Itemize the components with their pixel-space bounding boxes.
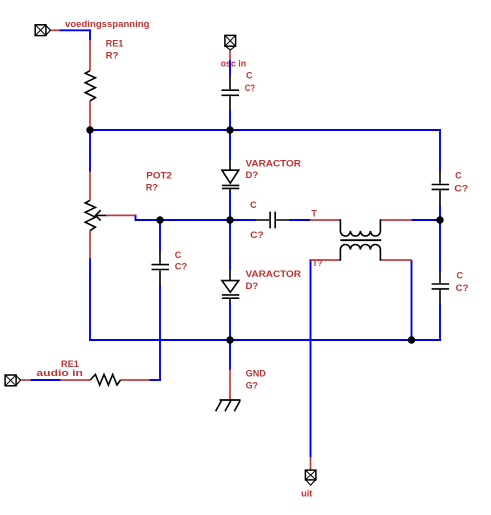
svg-text:D?: D? xyxy=(246,170,259,180)
svg-text:voedingsspanning: voedingsspanning xyxy=(65,19,150,29)
varactor D2 plates xyxy=(222,295,239,298)
ground symbol bar xyxy=(220,399,241,401)
wire osc cap to bus xyxy=(229,110,231,131)
wire bus to varactor1 xyxy=(229,130,231,160)
wire mid junction to cap xyxy=(159,220,161,251)
svg-text:VARACTOR: VARACTOR xyxy=(246,158,302,168)
capacitor C (series mid) plates xyxy=(270,212,275,229)
wire top bus xyxy=(90,129,441,131)
wire mid left xyxy=(135,219,230,221)
wire left rail upper xyxy=(89,130,91,172)
svg-text:osc in: osc in xyxy=(221,59,246,69)
svg-text:C?: C? xyxy=(175,261,187,271)
varactor D1 plates xyxy=(222,185,239,188)
varactor D2 stub xyxy=(229,270,231,281)
varactor D2 triangle xyxy=(222,281,239,293)
resistor RE1 (horizontal, audio) xyxy=(90,375,120,386)
junction at supply/bus xyxy=(86,126,93,133)
pin pot wiper xyxy=(106,214,136,216)
junction gnd bus xyxy=(226,336,233,343)
capacitor C (osc) stubs xyxy=(229,76,231,110)
potentiometer wiper arrow xyxy=(96,210,107,220)
wire varactor2 to bottom bus xyxy=(229,302,231,340)
svg-text:C: C xyxy=(246,71,253,81)
wire junction to right cap2 xyxy=(439,220,441,271)
svg-text:C: C xyxy=(250,200,257,210)
junction varactor mid xyxy=(226,216,233,223)
pin pot bottom xyxy=(89,231,91,259)
pin audio resistor left xyxy=(60,379,90,381)
svg-text:R?: R? xyxy=(106,51,119,61)
transformer T core xyxy=(340,239,381,241)
pin audio resistor right xyxy=(121,379,150,381)
svg-text:GND: GND xyxy=(246,368,267,378)
wire osc stub xyxy=(229,60,231,76)
svg-text:RE1: RE1 xyxy=(106,38,124,48)
varactor D1 triangle xyxy=(222,170,239,183)
wire top-left vertical xyxy=(89,29,91,40)
transformer T secondary winding xyxy=(340,245,380,261)
varactor D1 lower stub xyxy=(229,188,231,191)
svg-text:audio in: audio in xyxy=(36,368,83,378)
svg-text:C: C xyxy=(455,171,462,181)
wire right cap1 to junction xyxy=(439,206,441,220)
wire gnd stem blue xyxy=(229,340,231,370)
wire top-left horizontal xyxy=(59,29,91,31)
pin voedingsspanning terminal xyxy=(50,29,60,31)
wire audio left blue xyxy=(31,379,61,381)
pin gnd xyxy=(229,370,231,400)
capacitor C (below pot) plates xyxy=(152,265,170,270)
junction at osc/bus xyxy=(226,126,233,133)
wire mid cap left xyxy=(230,219,256,221)
svg-text:POT2: POT2 xyxy=(146,170,172,180)
wire cap down to audio row xyxy=(159,285,161,381)
wire right cap2 to bottom bus xyxy=(439,304,441,341)
capacitor C (series mid) stubs xyxy=(255,219,289,221)
pin transformer secondary right xyxy=(380,259,411,261)
wire bottom bus xyxy=(89,339,441,341)
varactor D1 stub xyxy=(229,160,231,171)
svg-text:D?: D? xyxy=(246,281,259,291)
wire wiper step xyxy=(135,215,137,221)
svg-text:VARACTOR: VARACTOR xyxy=(246,269,302,279)
pin transformer secondary left xyxy=(311,259,341,261)
capacitor C (below pot) stubs xyxy=(159,250,161,285)
junction at pot wiper net xyxy=(156,216,163,223)
varactor D2 lower stub xyxy=(229,298,231,302)
wire mid to varactor2 xyxy=(229,220,231,270)
potentiometer POT2 body xyxy=(85,200,95,230)
svg-text:C: C xyxy=(457,271,464,281)
svg-text:G?: G? xyxy=(246,381,258,391)
terminal voedingsspanning xyxy=(35,25,50,36)
pin osc terminal xyxy=(229,50,231,60)
pin pot top xyxy=(89,172,91,201)
svg-text:C?: C? xyxy=(245,83,255,93)
wire secondary left down to uit xyxy=(310,259,312,457)
svg-text:C?: C? xyxy=(454,184,468,194)
wire left rail lower xyxy=(89,258,91,341)
pin resistor RE1 bottom xyxy=(89,101,91,131)
terminal osc in xyxy=(225,35,236,50)
terminal uit xyxy=(305,470,316,485)
terminal audio in xyxy=(5,375,20,386)
pin audio terminal xyxy=(20,379,31,381)
capacitor C (right bottom) stubs xyxy=(439,271,441,305)
junction secondary right bus xyxy=(408,336,415,343)
svg-text:T: T xyxy=(311,208,317,218)
svg-text:C?: C? xyxy=(250,230,264,240)
capacitor C (osc) plates xyxy=(222,90,240,95)
wire secondary right down xyxy=(411,260,413,340)
svg-text:uit: uit xyxy=(301,489,312,499)
junction right caps xyxy=(436,216,443,223)
pin transformer primary left xyxy=(310,219,340,221)
ground symbol slashes xyxy=(216,401,241,412)
wire right rail top xyxy=(439,129,441,170)
resistor RE1 (vertical) xyxy=(85,71,95,101)
svg-text:R?: R? xyxy=(146,182,158,192)
pin resistor RE1 top xyxy=(89,40,91,71)
pin transformer primary right xyxy=(380,219,412,221)
transformer T primary winding xyxy=(340,219,380,236)
capacitor C (right bottom) plates xyxy=(432,284,450,289)
capacitor C (right top) plates xyxy=(432,185,450,190)
wire mid cap right xyxy=(289,219,310,221)
wire mid right to cap junction xyxy=(411,219,440,221)
svg-text:C: C xyxy=(175,250,182,260)
capacitor C (right top) stubs xyxy=(439,170,441,206)
pin uit terminal xyxy=(310,457,312,470)
svg-text:C?: C? xyxy=(456,283,469,293)
wire audio corner xyxy=(149,379,161,381)
wire varactor1 to mid xyxy=(229,191,231,220)
